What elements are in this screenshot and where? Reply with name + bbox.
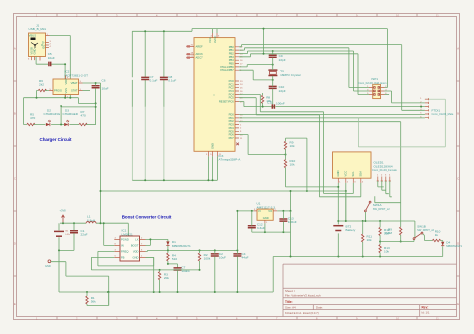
svg-text:GND: GND [263,216,269,220]
led D4 [441,241,463,257]
svg-text:FTDI1: FTDI1 [432,108,441,112]
capacitor C1 [58,223,88,251]
no-connect pd7 [236,143,239,146]
svg-text:SW_DPDT_x2: SW_DPDT_x2 [417,228,434,232]
capacitor C2 [211,250,226,292]
svg-text:A: A [457,47,459,51]
wire boot [146,239,151,245]
svg-text:2k2: 2k2 [39,83,44,87]
svg-text:PB3: PB3 [229,55,235,59]
svg-text:100nF: 100nF [288,220,297,224]
battery B1 [54,223,71,292]
capacitor C5 [36,52,66,97]
svg-text:10uF: 10uF [219,256,226,260]
diode D1 schottky [166,239,191,250]
svg-text:470: 470 [81,114,86,118]
wire gnd rail right [273,257,443,293]
wire ftdi pin1 gnd loop [358,99,445,147]
wire isp pin4 to ftdi pin2 [385,91,425,103]
svg-text:Charger Circuit: Charger Circuit [40,137,73,142]
svg-text:ADC6: ADC6 [196,52,204,56]
svg-text:VDD: VDD [64,79,68,85]
svg-text:PD0: PD0 [229,113,235,117]
svg-text:AVCC: AVCC [213,36,217,43]
svg-text:VDD: VDD [133,249,139,253]
wire pd0 to ftdi pin5 [239,114,425,116]
capacitor C10 [269,80,286,107]
svg-text:PB5: PB5 [229,62,235,66]
wire isp pin6 stub [385,94,390,96]
wire staircase pb5 to isp pin5 [239,54,369,95]
svg-text:D: D [14,242,16,246]
svg-text:16MHz Crystal: 16MHz Crystal [280,73,301,77]
svg-text:D4: D4 [446,241,450,245]
svg-text:SW_DPDT_x2: SW_DPDT_x2 [373,207,390,211]
svg-text:470: 470 [30,116,35,120]
svg-text:C6: C6 [102,79,106,83]
svg-text:0.1uF: 0.1uF [150,78,158,82]
svg-text:VSS: VSS [64,88,68,94]
wire pd6 to sense divider [239,135,286,155]
svg-text:10k: 10k [290,163,295,167]
svg-text:Battery: Battery [346,228,356,232]
svg-text:MBR0520LT1: MBR0520LT1 [446,244,462,248]
svg-text:Boost Converter Circuit: Boost Converter Circuit [122,215,172,220]
svg-text:SW1B: SW1B [417,224,426,228]
wire pc5 sda to oled [239,98,319,197]
wire VBAT rail [83,83,101,223]
svg-text:ISP1: ISP1 [371,77,378,81]
svg-text:AMS1117-3.3: AMS1117-3.3 [257,205,276,209]
svg-text:PC5: PC5 [229,96,235,100]
wire oled pins [337,183,339,221]
resistor R10 series [425,229,443,241]
svg-text:VBAT: VBAT [71,81,78,85]
svg-text:20k: 20k [164,276,169,280]
svg-text:Conn_01x04_Female: Conn_01x04_Female [372,168,397,172]
wire isp pin2 from vcc top [385,29,388,88]
svg-text:100k: 100k [204,257,211,261]
svg-text:GND: GND [211,143,215,149]
capacitor C7 [141,75,157,83]
battery BT2 [333,220,355,257]
wire fb loop [91,257,199,270]
svg-text:VCC: VCC [208,37,212,43]
svg-text:Conn_01x06_Male: Conn_01x06_Male [432,112,454,116]
svg-text:STAT: STAT [71,89,78,93]
resistor R6 [37,79,50,98]
capacitor C11 dtr [267,100,285,108]
svg-text:ADC7: ADC7 [196,56,204,60]
resistor R12 [379,221,390,245]
svg-text:SW1A: SW1A [373,203,383,207]
resistor R11 [362,221,373,257]
svg-text:XTAL2/PB7: XTAL2/PB7 [220,68,234,72]
svg-text:CHARGED: CHARGED [63,112,79,116]
svg-text:KiCad E.D.A. kicad (6.0.7): KiCad E.D.A. kicad (6.0.7) [285,311,319,315]
svg-text:50k: 50k [384,232,389,236]
isp connector ISP1 [358,77,387,98]
svg-text:+3V8: +3V8 [60,209,67,213]
svg-text:22uF: 22uF [81,233,88,237]
svg-text:Title:: Title: [285,300,293,304]
wire ic1 gnd [146,257,154,292]
wire staircase pb3 to isp pin1 [239,48,369,88]
power flag +3V8 [60,209,67,224]
wire avcc branch [263,29,265,54]
svg-text:Rev:: Rev: [422,305,429,309]
wire boost input rail [60,223,128,245]
wire boost output rail [146,250,238,251]
wire boost gnd rail [59,291,273,293]
resistor R13 [379,245,390,257]
svg-text:PD2: PD2 [229,119,235,123]
svg-text:GND: GND [133,255,139,259]
svg-text:B: B [457,112,459,116]
led D3 CHARGED [63,109,80,127]
svg-text:OLED128X64: OLED128X64 [374,165,393,169]
wire gnd rail charger [24,98,96,125]
wire STAT stub [83,90,91,92]
resistor R3 [158,270,169,292]
switch SW1B [413,224,434,240]
svg-text:A: A [14,47,16,51]
svg-text:SCL: SCL [351,171,355,177]
gnd rail below mcu [132,156,217,180]
resistor R7 [79,110,96,126]
svg-text:Date:: Date: [316,306,323,310]
usb connector J1 [28,24,52,61]
wire VBUS from J1 to rail [50,36,71,98]
charger ic IC2 MCP73831 [49,70,88,99]
svg-text:RESET/PC6: RESET/PC6 [219,100,234,104]
wire lx to diode [146,238,168,240]
capacitor C7 boost [174,266,191,292]
wire xtal1 [239,65,273,67]
svg-text:10k: 10k [290,144,295,148]
svg-text:PROG: PROG [54,89,62,93]
svg-text:ATmega328P-A: ATmega328P-A [219,158,242,162]
switch SW1A [364,196,400,222]
regulator U1 AMS1117-3.3 [254,202,277,224]
led D2 CHARGING [44,109,65,127]
capacitor C13 [279,211,296,232]
wire reset row [239,102,272,107]
svg-text:MBR0520LT1: MBR0520LT1 [172,244,191,248]
boost ic IC1 LM2621 [114,229,145,261]
resistor R8 reset pullup [261,93,271,107]
svg-text:AREF: AREF [196,44,204,48]
resistor R1 [86,292,109,306]
capacitor C6 [92,79,109,125]
wire pc4 scl to oled [239,94,324,193]
svg-text:3.3uF: 3.3uF [257,226,265,230]
wire led loop [61,107,96,125]
svg-text:Size: A4: Size: A4 [285,306,296,310]
svg-text:C11: C11 [267,100,273,104]
svg-text:ID: ID [42,45,45,49]
svg-text:GND: GND [336,170,340,176]
svg-text:C: C [14,177,16,181]
header J2 pins [377,175,391,182]
capacitor C12 [248,211,291,233]
svg-text:File: VoltmeterV2.kicad_sch: File: VoltmeterV2.kicad_sch [285,293,321,297]
svg-text:SDA: SDA [359,171,363,177]
svg-text:22pF: 22pF [279,89,286,93]
svg-text:22pF: 22pF [279,58,286,62]
svg-text:10k: 10k [384,250,389,254]
svg-text:USB_B_Mini: USB_B_Mini [29,27,47,31]
svg-text:VCC: VCC [344,171,348,177]
svg-text:CHARGING: CHARGING [44,112,61,116]
svg-text:GND: GND [32,48,36,54]
wire xtal2 [239,70,273,80]
svg-text:Sheet: /: Sheet: / [285,289,295,293]
wire top vcc line [132,29,387,32]
inductor L1 [86,215,96,224]
resistor R9b sense [385,227,402,243]
svg-text:E: E [14,302,16,306]
resistor R10 pullup [284,159,338,187]
svg-text:FREQ: FREQ [121,249,128,253]
wire pd2 to switch feed [239,122,401,227]
capacitor C9 [269,50,286,65]
capacitor C4 [233,249,248,292]
svg-text:C: C [457,177,459,181]
svg-text:FB: FB [121,255,125,259]
svg-text:VO: VO [268,209,272,213]
wire dtr to ftdi pin3 [275,106,425,108]
svg-text:PD7: PD7 [229,136,235,140]
svg-text:GND: GND [45,264,51,268]
svg-text:PGND: PGND [121,237,129,241]
wire staircase pb4 to isp pin3 [239,51,369,91]
svg-text:0.1uF: 0.1uF [168,78,176,82]
mcu right pins [206,45,243,156]
svg-text:LM2621: LM2621 [122,232,133,236]
gnd flag [45,260,110,306]
wire staircase pb0 to ftdi pin4 [239,45,425,111]
svg-text:Id: 1/1: Id: 1/1 [422,311,430,315]
resistor R5 [24,113,46,126]
svg-text:10uF: 10uF [48,56,55,60]
wire vin [237,211,253,251]
resistor R4 [167,250,178,267]
svg-text:∷: ∷ [214,94,216,97]
svg-text:44uF: 44uF [242,256,249,260]
wire ams gnd down [265,211,291,257]
mcu IC3 ATmega328P-A [186,29,241,162]
svg-text:VI: VI [258,209,261,213]
wire vout [277,210,290,212]
svg-text:MCP73831-2-OT: MCP73831-2-OT [65,73,89,77]
svg-text:510: 510 [172,257,177,261]
capacitor C8 [160,75,176,83]
svg-text:LiPo: LiPo [66,234,71,236]
svg-text:Conn_02x03_Odd_Even: Conn_02x03_Odd_Even [358,81,387,85]
wire battery top rail [338,221,415,238]
ftdi connector FTDI1 [420,98,454,119]
resistor R2 [198,250,210,271]
wire sw1b row [380,240,414,242]
oled display OLED1 [333,152,398,184]
resistor R9 pullup [284,138,308,192]
svg-text:PB1: PB1 [229,48,235,52]
svg-text:10uF: 10uF [102,87,109,91]
title block [283,264,457,316]
svg-text:VBUS: VBUS [29,34,37,38]
svg-text:PC1: PC1 [229,82,235,86]
crystal Y1 16MHz [268,65,300,80]
svg-text:PC3: PC3 [229,89,235,93]
svg-text:IN: IN [121,243,124,247]
svg-text:E: E [457,302,459,306]
svg-text:B: B [14,112,16,116]
svg-text:100nF: 100nF [276,102,285,106]
svg-text:PD4: PD4 [229,126,235,130]
svg-text:10k: 10k [367,238,372,242]
svg-text:LX: LX [135,237,138,241]
wire 3v3 rail [101,191,346,221]
wire pd1 to ftdi pin6 [239,117,425,119]
svg-text:56k: 56k [91,300,96,304]
svg-text:1k: 1k [435,233,439,237]
svg-text:BOOT: BOOT [131,243,139,247]
svg-text:PD6: PD6 [229,133,235,137]
